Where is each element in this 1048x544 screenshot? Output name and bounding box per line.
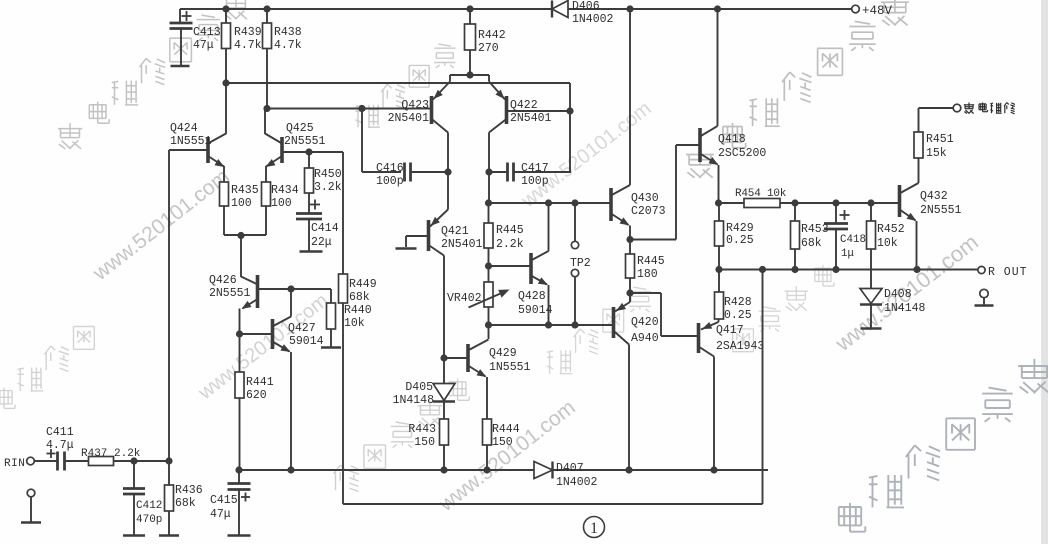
- svg-text:C2073: C2073: [631, 205, 666, 218]
- svg-text:2N5401: 2N5401: [510, 112, 552, 125]
- svg-text:R450: R450: [314, 168, 342, 181]
- svg-text:150: 150: [492, 436, 513, 449]
- svg-text:C417: C417: [521, 162, 549, 175]
- svg-text:TP2: TP2: [570, 257, 591, 270]
- svg-text:270: 270: [478, 42, 499, 55]
- svg-text:D406: D406: [572, 0, 600, 13]
- svg-text:Q432: Q432: [920, 190, 948, 203]
- svg-text:Q424: Q424: [170, 122, 198, 135]
- svg-text:Q427: Q427: [288, 322, 316, 335]
- svg-text:470p: 470p: [136, 514, 162, 526]
- svg-text:R454 10k: R454 10k: [735, 188, 787, 200]
- svg-text:D405: D405: [405, 381, 433, 394]
- svg-text:R452: R452: [877, 223, 905, 236]
- svg-text:C413: C413: [193, 26, 221, 39]
- svg-text:D407: D407: [556, 462, 584, 475]
- svg-text:R OUT: R OUT: [988, 266, 1028, 279]
- svg-text:C415: C415: [210, 494, 238, 507]
- svg-text:R441: R441: [246, 376, 274, 389]
- svg-text:4.7μ: 4.7μ: [46, 439, 74, 452]
- svg-text:4.7k: 4.7k: [274, 39, 302, 52]
- svg-text:Q428: Q428: [518, 290, 546, 303]
- svg-text:3.2k: 3.2k: [314, 181, 342, 194]
- svg-text:D408: D408: [884, 288, 912, 301]
- svg-text:+48V: +48V: [862, 4, 893, 18]
- svg-text:47μ: 47μ: [193, 39, 214, 52]
- svg-text:C412: C412: [136, 500, 162, 512]
- svg-text:2N5401: 2N5401: [441, 238, 483, 251]
- svg-text:R442: R442: [478, 29, 506, 42]
- svg-text:2N5551: 2N5551: [209, 287, 251, 300]
- svg-text:15k: 15k: [926, 147, 947, 160]
- svg-text:C418: C418: [840, 234, 866, 246]
- svg-text:1: 1: [590, 520, 598, 537]
- svg-text:0.25: 0.25: [724, 309, 752, 322]
- svg-text:R444: R444: [492, 423, 520, 436]
- svg-text:59014: 59014: [289, 335, 324, 348]
- svg-text:RIN: RIN: [4, 458, 25, 470]
- svg-text:100p: 100p: [376, 175, 404, 188]
- svg-text:100p: 100p: [521, 175, 549, 188]
- svg-text:R440: R440: [344, 304, 372, 317]
- svg-text:R439: R439: [234, 26, 262, 39]
- svg-text:1N4148: 1N4148: [884, 302, 926, 315]
- svg-text:2N5401: 2N5401: [388, 112, 430, 125]
- svg-text:4.7k: 4.7k: [234, 39, 262, 52]
- svg-text:2SC5200: 2SC5200: [718, 147, 766, 160]
- svg-text:1μ: 1μ: [841, 248, 854, 260]
- svg-text:R434: R434: [271, 184, 299, 197]
- svg-text:Q418: Q418: [718, 133, 746, 146]
- svg-text:68k: 68k: [801, 237, 822, 250]
- svg-text:R449: R449: [349, 278, 377, 291]
- svg-text:R428: R428: [724, 296, 752, 309]
- svg-text:1N5551: 1N5551: [170, 135, 212, 148]
- svg-text:VR402: VR402: [447, 292, 482, 305]
- svg-text:A940: A940: [631, 332, 659, 345]
- svg-text:1N4002: 1N4002: [572, 13, 614, 26]
- svg-text:1N5551: 1N5551: [489, 361, 531, 374]
- svg-text:68k: 68k: [349, 291, 370, 304]
- svg-text:2SA1943: 2SA1943: [716, 340, 764, 353]
- svg-text:1N4148: 1N4148: [393, 394, 435, 407]
- svg-text:150: 150: [414, 436, 435, 449]
- svg-text:10k: 10k: [877, 237, 898, 250]
- svg-text:Q426: Q426: [209, 274, 237, 287]
- svg-text:180: 180: [637, 268, 658, 281]
- svg-text:R436: R436: [175, 484, 203, 497]
- svg-text:2N5551: 2N5551: [284, 135, 326, 148]
- svg-text:1N4002: 1N4002: [556, 476, 598, 489]
- svg-text:59014: 59014: [518, 304, 553, 317]
- svg-text:R435: R435: [231, 184, 259, 197]
- svg-text:C416: C416: [376, 162, 404, 175]
- svg-text:0.25: 0.25: [726, 234, 754, 247]
- svg-text:Q423: Q423: [401, 99, 429, 112]
- svg-text:R443: R443: [408, 423, 436, 436]
- svg-text:620: 620: [246, 389, 267, 402]
- svg-text:100: 100: [231, 197, 252, 210]
- svg-text:Q429: Q429: [489, 347, 517, 360]
- svg-text:R445: R445: [496, 224, 524, 237]
- svg-text:R451: R451: [926, 133, 954, 146]
- svg-text:C411: C411: [46, 426, 74, 439]
- svg-text:Q420: Q420: [631, 316, 659, 329]
- svg-text:22μ: 22μ: [311, 236, 332, 249]
- svg-text:Q425: Q425: [286, 122, 314, 135]
- svg-text:C414: C414: [311, 222, 339, 235]
- svg-text:2N5551: 2N5551: [920, 204, 962, 217]
- svg-text:R438: R438: [274, 26, 302, 39]
- svg-text:100: 100: [271, 197, 292, 210]
- svg-text:68k: 68k: [175, 497, 196, 510]
- svg-text:R445: R445: [637, 255, 665, 268]
- svg-text:Q421: Q421: [441, 225, 469, 238]
- svg-text:Q430: Q430: [631, 192, 659, 205]
- svg-text:Q417: Q417: [716, 324, 744, 337]
- svg-text:47μ: 47μ: [210, 508, 231, 521]
- svg-text:2.2k: 2.2k: [496, 238, 524, 251]
- svg-text:10k: 10k: [344, 317, 365, 330]
